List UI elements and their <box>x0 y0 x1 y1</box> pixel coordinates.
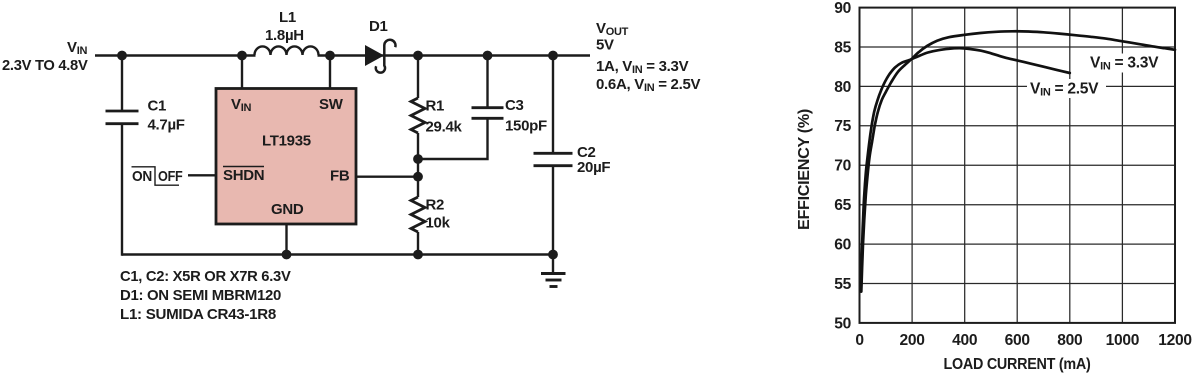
svg-text:C3: C3 <box>505 97 524 114</box>
curve VIN=2.5V <box>861 48 1070 291</box>
svg-text:400: 400 <box>952 332 978 349</box>
svg-text:90: 90 <box>834 0 851 17</box>
wire: SW pin to top rail <box>329 56 331 90</box>
svg-text:10k: 10k <box>426 215 451 232</box>
svg-text:70: 70 <box>834 158 851 175</box>
svg-text:1A, VIN = 3.3V: 1A, VIN = 3.3V <box>596 58 689 76</box>
axis Y tick labels <box>834 0 851 332</box>
node junction dot ground node <box>548 250 558 260</box>
svg-text:ON: ON <box>132 168 152 185</box>
wire: FB pin to divider <box>355 175 418 177</box>
node junction dot R2 bottom <box>413 250 423 260</box>
svg-text:FB: FB <box>330 168 350 185</box>
svg-text:55: 55 <box>834 276 851 293</box>
axis X tick labels <box>855 332 1192 349</box>
svg-text:1000: 1000 <box>1106 332 1140 349</box>
svg-text:D1: ON SEMI MBRM120: D1: ON SEMI MBRM120 <box>120 287 281 304</box>
svg-text:R2: R2 <box>426 197 445 214</box>
label VIN = 2.5V <box>1027 79 1106 99</box>
svg-text:OFF: OFF <box>158 168 183 185</box>
chart frame <box>860 8 1176 323</box>
node junction dot at C3 top <box>483 51 493 61</box>
node junction dot at L1 left / IC VIN pin <box>237 51 247 61</box>
resistor R1 29.4k <box>411 56 462 160</box>
svg-text:85: 85 <box>834 39 851 56</box>
svg-text:75: 75 <box>834 118 851 135</box>
wire: top rail from VIN input to VOUT <box>95 54 256 56</box>
node junction dot at C1 tap <box>117 51 127 61</box>
diode D1 (Schottky) <box>365 18 395 73</box>
svg-text:0: 0 <box>855 332 864 349</box>
svg-text:SHDN: SHDN <box>223 167 264 184</box>
wire: R1 bottom junction to FB junction <box>417 159 419 177</box>
svg-text:20µF: 20µF <box>577 159 610 176</box>
node junction dot R1 bottom / C3 return <box>413 154 423 164</box>
capacitor C1 <box>106 56 185 256</box>
capacitor C2 20uF <box>534 56 611 256</box>
svg-text:LOAD CURRENT (mA): LOAD CURRENT (mA) <box>944 356 1091 373</box>
svg-text:L1: L1 <box>279 9 296 26</box>
svg-text:C1, C2: X5R OR X7R 6.3V: C1, C2: X5R OR X7R 6.3V <box>120 268 291 285</box>
svg-text:1200: 1200 <box>1158 332 1192 349</box>
svg-text:C1: C1 <box>148 98 167 115</box>
svg-text:D1: D1 <box>369 18 388 35</box>
wire: SHDN pin from ON/OFF <box>188 174 217 176</box>
svg-text:65: 65 <box>834 197 851 214</box>
svg-text:EFFICIENCY (%): EFFICIENCY (%) <box>796 109 813 230</box>
curve VIN=3.3V <box>861 31 1175 291</box>
resistor R2 10k <box>411 177 451 256</box>
svg-text:60: 60 <box>834 237 851 254</box>
node VOUT output labels <box>596 20 700 94</box>
svg-text:LT1935: LT1935 <box>262 133 311 150</box>
svg-text:50: 50 <box>834 315 851 332</box>
svg-text:200: 200 <box>900 332 926 349</box>
wire: top rail right of inductor <box>318 54 591 56</box>
node junction dot at R1 top <box>413 51 423 61</box>
ground symbol <box>541 255 566 287</box>
svg-text:150pF: 150pF <box>505 118 547 135</box>
chart grid horizontal lines <box>860 47 1176 284</box>
svg-text:R1: R1 <box>426 98 445 115</box>
wire: bottom rail <box>122 253 553 255</box>
svg-text:2.3V TO 4.8V: 2.3V TO 4.8V <box>2 57 88 74</box>
node ON/OFF control label <box>132 167 183 185</box>
svg-text:GND: GND <box>271 201 304 218</box>
svg-text:29.4k: 29.4k <box>426 119 463 136</box>
svg-text:5V: 5V <box>596 36 614 53</box>
node junction dot at C2 top <box>548 51 558 61</box>
svg-text:1.8µH: 1.8µH <box>265 27 304 44</box>
chart grid vertical lines <box>912 8 1122 323</box>
wire: VIN pin to top rail <box>241 56 243 90</box>
wire: GND pin to bottom rail <box>285 223 287 256</box>
chart: efficiency vs load current <box>860 8 1176 323</box>
node junction dot GND pin on bottom rail <box>282 250 292 260</box>
node junction dot FB tap <box>413 172 423 182</box>
inductor L1 <box>255 9 319 55</box>
note: component notes <box>120 268 291 323</box>
svg-text:800: 800 <box>1057 332 1083 349</box>
node VIN input labels <box>2 39 88 74</box>
node junction dot at L1 right / SW pin <box>325 51 335 61</box>
label VIN = 3.3V <box>1087 54 1166 73</box>
IC U1 LT1935 <box>216 89 356 225</box>
svg-text:80: 80 <box>834 79 851 96</box>
svg-text:SW: SW <box>319 96 344 113</box>
svg-text:4.7µF: 4.7µF <box>148 117 185 134</box>
capacitor C3 150pF <box>418 56 547 160</box>
svg-text:600: 600 <box>1005 332 1031 349</box>
svg-text:L1: SUMIDA CR43-1R8: L1: SUMIDA CR43-1R8 <box>120 306 276 323</box>
